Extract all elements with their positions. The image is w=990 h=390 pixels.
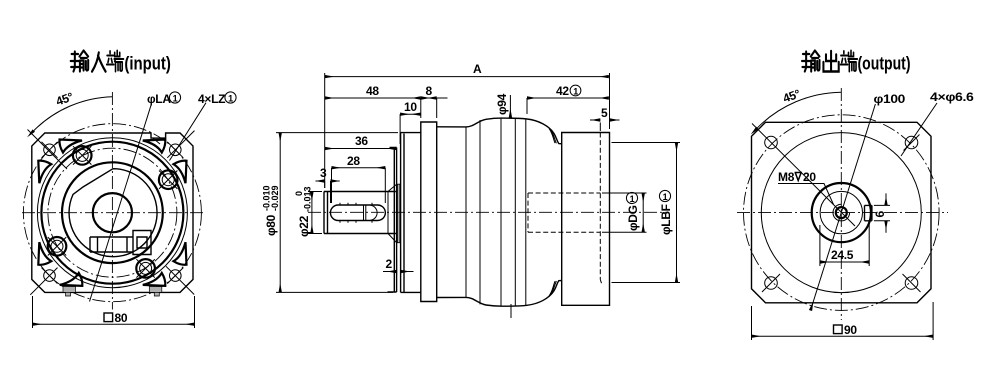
boss circle r75 xyxy=(37,138,187,288)
dim 5 rear xyxy=(600,116,609,131)
M8 depth 20 label xyxy=(778,170,816,184)
corner fin BL-b xyxy=(38,242,51,265)
45deg dimension arc xyxy=(757,92,841,128)
4xLZ leader line xyxy=(170,103,207,161)
title 输入端(input) xyxy=(71,51,124,72)
clamp hub circle r44 with chamfer cut xyxy=(69,169,157,257)
dim 28 line xyxy=(332,167,386,169)
45deg dimension arc xyxy=(34,97,113,131)
dim phiLBF xyxy=(612,143,681,283)
body surface lines xyxy=(466,118,526,306)
svg-text:A: A xyxy=(473,62,482,76)
svg-text:3: 3 xyxy=(320,166,327,180)
shaft root flare xyxy=(388,184,397,242)
corner hole BR xyxy=(903,274,921,292)
phi100 leader xyxy=(811,104,876,311)
horizontal centerline xyxy=(737,212,948,214)
dim 48 line xyxy=(325,97,421,99)
corner hole BL xyxy=(762,274,780,292)
svg-text:4×φ6.6: 4×φ6.6 xyxy=(930,90,974,104)
keyway slot at 3 o'clock xyxy=(865,205,872,220)
square flange outline with chamfered corners xyxy=(32,133,193,292)
svg-text:1: 1 xyxy=(630,194,635,204)
dim 36 line xyxy=(325,148,397,150)
svg-text:1: 1 xyxy=(663,192,668,202)
slotted-screw bolt circle dash-dot r64.5 xyxy=(48,148,177,277)
corner hole BL xyxy=(30,268,57,295)
dim 24.5 xyxy=(820,224,869,266)
hidden line LBF bore depth xyxy=(600,133,601,284)
corner hole TL xyxy=(765,136,778,149)
square80 label xyxy=(104,311,128,325)
shaft keyway slot xyxy=(330,205,385,221)
output boss inner circle xyxy=(820,191,862,233)
front hub section xyxy=(401,133,421,293)
svg-text:φ80: φ80 xyxy=(264,214,278,236)
dim 6 keyway xyxy=(874,205,890,220)
small notch rect on top edge xyxy=(151,133,166,144)
vertical centerline xyxy=(111,92,113,310)
boss circle thick r71 xyxy=(41,142,183,284)
svg-text:1: 1 xyxy=(228,94,233,104)
dim 42 line xyxy=(527,97,609,99)
dim 10 line xyxy=(400,113,421,115)
slotted screw hole 301deg xyxy=(136,259,155,278)
vertical centerline xyxy=(840,88,842,320)
dim A extension lines xyxy=(325,73,610,188)
clamp screw head xyxy=(133,231,151,255)
dim phi94 leader xyxy=(509,95,511,118)
svg-text:20: 20 xyxy=(803,170,816,184)
dim phiDG xyxy=(602,193,647,232)
svg-text:-0.029: -0.029 xyxy=(270,185,280,211)
svg-text:1: 1 xyxy=(573,86,578,96)
svg-text:-0.013: -0.013 xyxy=(303,186,313,212)
bolt circle phi100 dash-dot xyxy=(744,115,940,311)
svg-text:M8: M8 xyxy=(778,170,795,184)
shaft collar band xyxy=(397,184,401,243)
45deg corner diagonal xyxy=(28,130,68,170)
svg-text:24.5: 24.5 xyxy=(831,248,854,262)
corner hole TR xyxy=(904,135,920,151)
bolt circle dash-dot r89 xyxy=(23,124,201,302)
svg-text:(input): (input) xyxy=(124,54,171,74)
rear output flange xyxy=(562,133,610,306)
MID VIEW: side section of gearbox xyxy=(262,62,681,318)
corner hole BR xyxy=(166,266,194,294)
svg-text:80: 80 xyxy=(115,311,128,325)
dim square80 line xyxy=(33,323,195,325)
input shaft outline xyxy=(324,192,396,234)
corner fin TR-a xyxy=(143,140,166,153)
title 输出端(output) xyxy=(802,51,857,72)
svg-text:4×LZ: 4×LZ xyxy=(198,92,225,106)
corner hole TR xyxy=(167,131,194,158)
slotted screw hole 30deg xyxy=(159,170,178,189)
keyway inner end arc xyxy=(364,205,378,221)
svg-text:φDG: φDG xyxy=(626,205,640,231)
dim square90 extension lines xyxy=(752,302,934,340)
svg-text:φ94: φ94 xyxy=(495,93,509,115)
dim A line xyxy=(325,76,609,78)
square flange outline with chamfered corners xyxy=(752,122,932,302)
corner fin BR-a xyxy=(143,273,166,286)
M8 tap hole circles xyxy=(836,207,847,218)
horizontal centerline xyxy=(308,211,668,213)
keyway edge ticks xyxy=(340,203,372,223)
svg-text:10: 10 xyxy=(404,100,417,114)
dim 8 line xyxy=(421,97,437,99)
svg-text:8: 8 xyxy=(426,84,433,98)
svg-text:5: 5 xyxy=(601,106,608,120)
front flange plate xyxy=(388,148,397,293)
corner fin TL-b xyxy=(38,161,51,184)
hidden DG bore lines xyxy=(528,193,600,232)
neck surface lines xyxy=(549,129,556,296)
svg-text:90: 90 xyxy=(844,323,857,337)
clamp screw barrel xyxy=(90,237,133,252)
body top profile xyxy=(437,118,562,144)
slotted screw hole 211deg xyxy=(48,237,67,256)
svg-text:28: 28 xyxy=(347,154,360,168)
output boss outer circle xyxy=(812,183,871,242)
M8 leader underline xyxy=(778,184,834,205)
dim square80 extension lines xyxy=(33,296,195,328)
slotted screw hole 118deg xyxy=(73,146,92,165)
svg-text:φ100: φ100 xyxy=(874,92,906,106)
fin foot BR xyxy=(149,287,162,297)
center tick below body xyxy=(510,304,512,318)
RIGHT VIEW: output end flange xyxy=(737,51,974,341)
fin foot BL xyxy=(63,287,76,297)
LEFT VIEW: input end flange xyxy=(22,51,236,329)
horizontal centerline xyxy=(22,212,204,214)
phi LA leader line xyxy=(90,103,152,301)
corner fin TR-b xyxy=(174,161,187,184)
4xphi6.6 leader xyxy=(901,103,937,156)
svg-text:6: 6 xyxy=(873,211,887,218)
phi94 ring xyxy=(421,122,437,302)
svg-text:φLA: φLA xyxy=(147,92,171,106)
big boss circle r80 xyxy=(761,133,921,293)
svg-text:42: 42 xyxy=(556,84,569,98)
corner fin BR-b xyxy=(174,242,187,265)
svg-text:1: 1 xyxy=(173,94,178,104)
svg-text:2: 2 xyxy=(386,257,393,271)
corner fin TL-a xyxy=(59,140,82,153)
inner thick circle r50.4 xyxy=(62,162,163,263)
corner hole TL xyxy=(42,142,58,158)
dim 3 xyxy=(316,180,325,182)
45deg diagonal line xyxy=(752,124,855,227)
svg-text:36: 36 xyxy=(355,134,368,148)
dim square90 line xyxy=(752,335,934,337)
svg-text:φLBF: φLBF xyxy=(659,204,673,235)
svg-text:48: 48 xyxy=(366,84,379,98)
body bottom profile xyxy=(437,281,562,307)
square90 label xyxy=(834,323,858,337)
dim 2 xyxy=(383,271,397,273)
bore circle r19.6 xyxy=(93,193,132,232)
svg-text:(output): (output) xyxy=(858,54,911,74)
corner fin BL-a xyxy=(60,273,83,286)
